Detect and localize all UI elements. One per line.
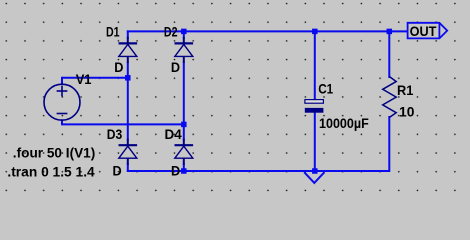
wire top rail (+ output net) <box>127 30 408 32</box>
node junction D4 bottom <box>181 168 187 174</box>
wire C1 bottom plate to bottom rail <box>314 112 316 172</box>
wire bottom rail (ground net) <box>127 170 390 172</box>
net flag OUT <box>408 23 448 39</box>
node junction R1 top <box>387 29 393 35</box>
wire node V1- to D4 cathode <box>183 124 185 140</box>
svg-text:D: D <box>171 59 180 75</box>
node junction V1- <box>181 122 187 128</box>
wire D2 anode to node V1- <box>183 62 185 125</box>
ground symbol <box>304 172 324 183</box>
diode D4 <box>175 139 194 165</box>
svg-text:.four 50 I(V1): .four 50 I(V1) <box>13 145 96 160</box>
wire node V1+ to D3 cathode <box>127 78 129 140</box>
wire D2 cathode to top rail <box>183 30 185 38</box>
svg-text:10000µF: 10000µF <box>319 115 369 131</box>
node junction ground <box>312 168 318 174</box>
wire top rail to R1 top <box>388 30 390 78</box>
svg-text:10: 10 <box>399 104 415 120</box>
wire V1 minus terminal to bridge <box>61 119 185 124</box>
svg-text:D: D <box>113 162 122 178</box>
svg-text:.tran 0 1.5 1.4: .tran 0 1.5 1.4 <box>7 164 95 179</box>
capacitor C1 (polarized) <box>305 100 324 113</box>
svg-text:D1: D1 <box>106 24 120 40</box>
svg-text:V1: V1 <box>76 71 92 87</box>
svg-text:OUT: OUT <box>410 24 438 39</box>
node junction D2 top <box>181 29 187 35</box>
voltage source V1 <box>44 84 80 120</box>
svg-text:D2: D2 <box>164 24 178 40</box>
svg-text:D4: D4 <box>165 126 182 142</box>
resistor R1 <box>383 77 397 118</box>
wire V1 plus terminal to bridge <box>62 77 129 85</box>
node junction V1+ <box>125 75 131 81</box>
diode D3 <box>119 139 138 165</box>
wire R1 bottom to bottom rail <box>388 116 390 172</box>
svg-text:D: D <box>171 163 180 179</box>
svg-text:C1: C1 <box>318 81 333 97</box>
wire D4 anode to bottom rail <box>183 163 185 172</box>
svg-text:D3: D3 <box>107 126 123 142</box>
diode D1 <box>119 37 138 63</box>
wire D1 anode to node V1+ <box>127 62 129 79</box>
wire top rail to C1 top plate <box>314 30 316 100</box>
wire D1 cathode to top rail <box>127 30 129 38</box>
wire D3 anode to bottom rail <box>127 163 129 172</box>
svg-text:D: D <box>114 59 123 75</box>
svg-text:R1: R1 <box>397 82 414 98</box>
diode D2 <box>175 37 194 63</box>
node junction C1 top <box>312 29 318 35</box>
